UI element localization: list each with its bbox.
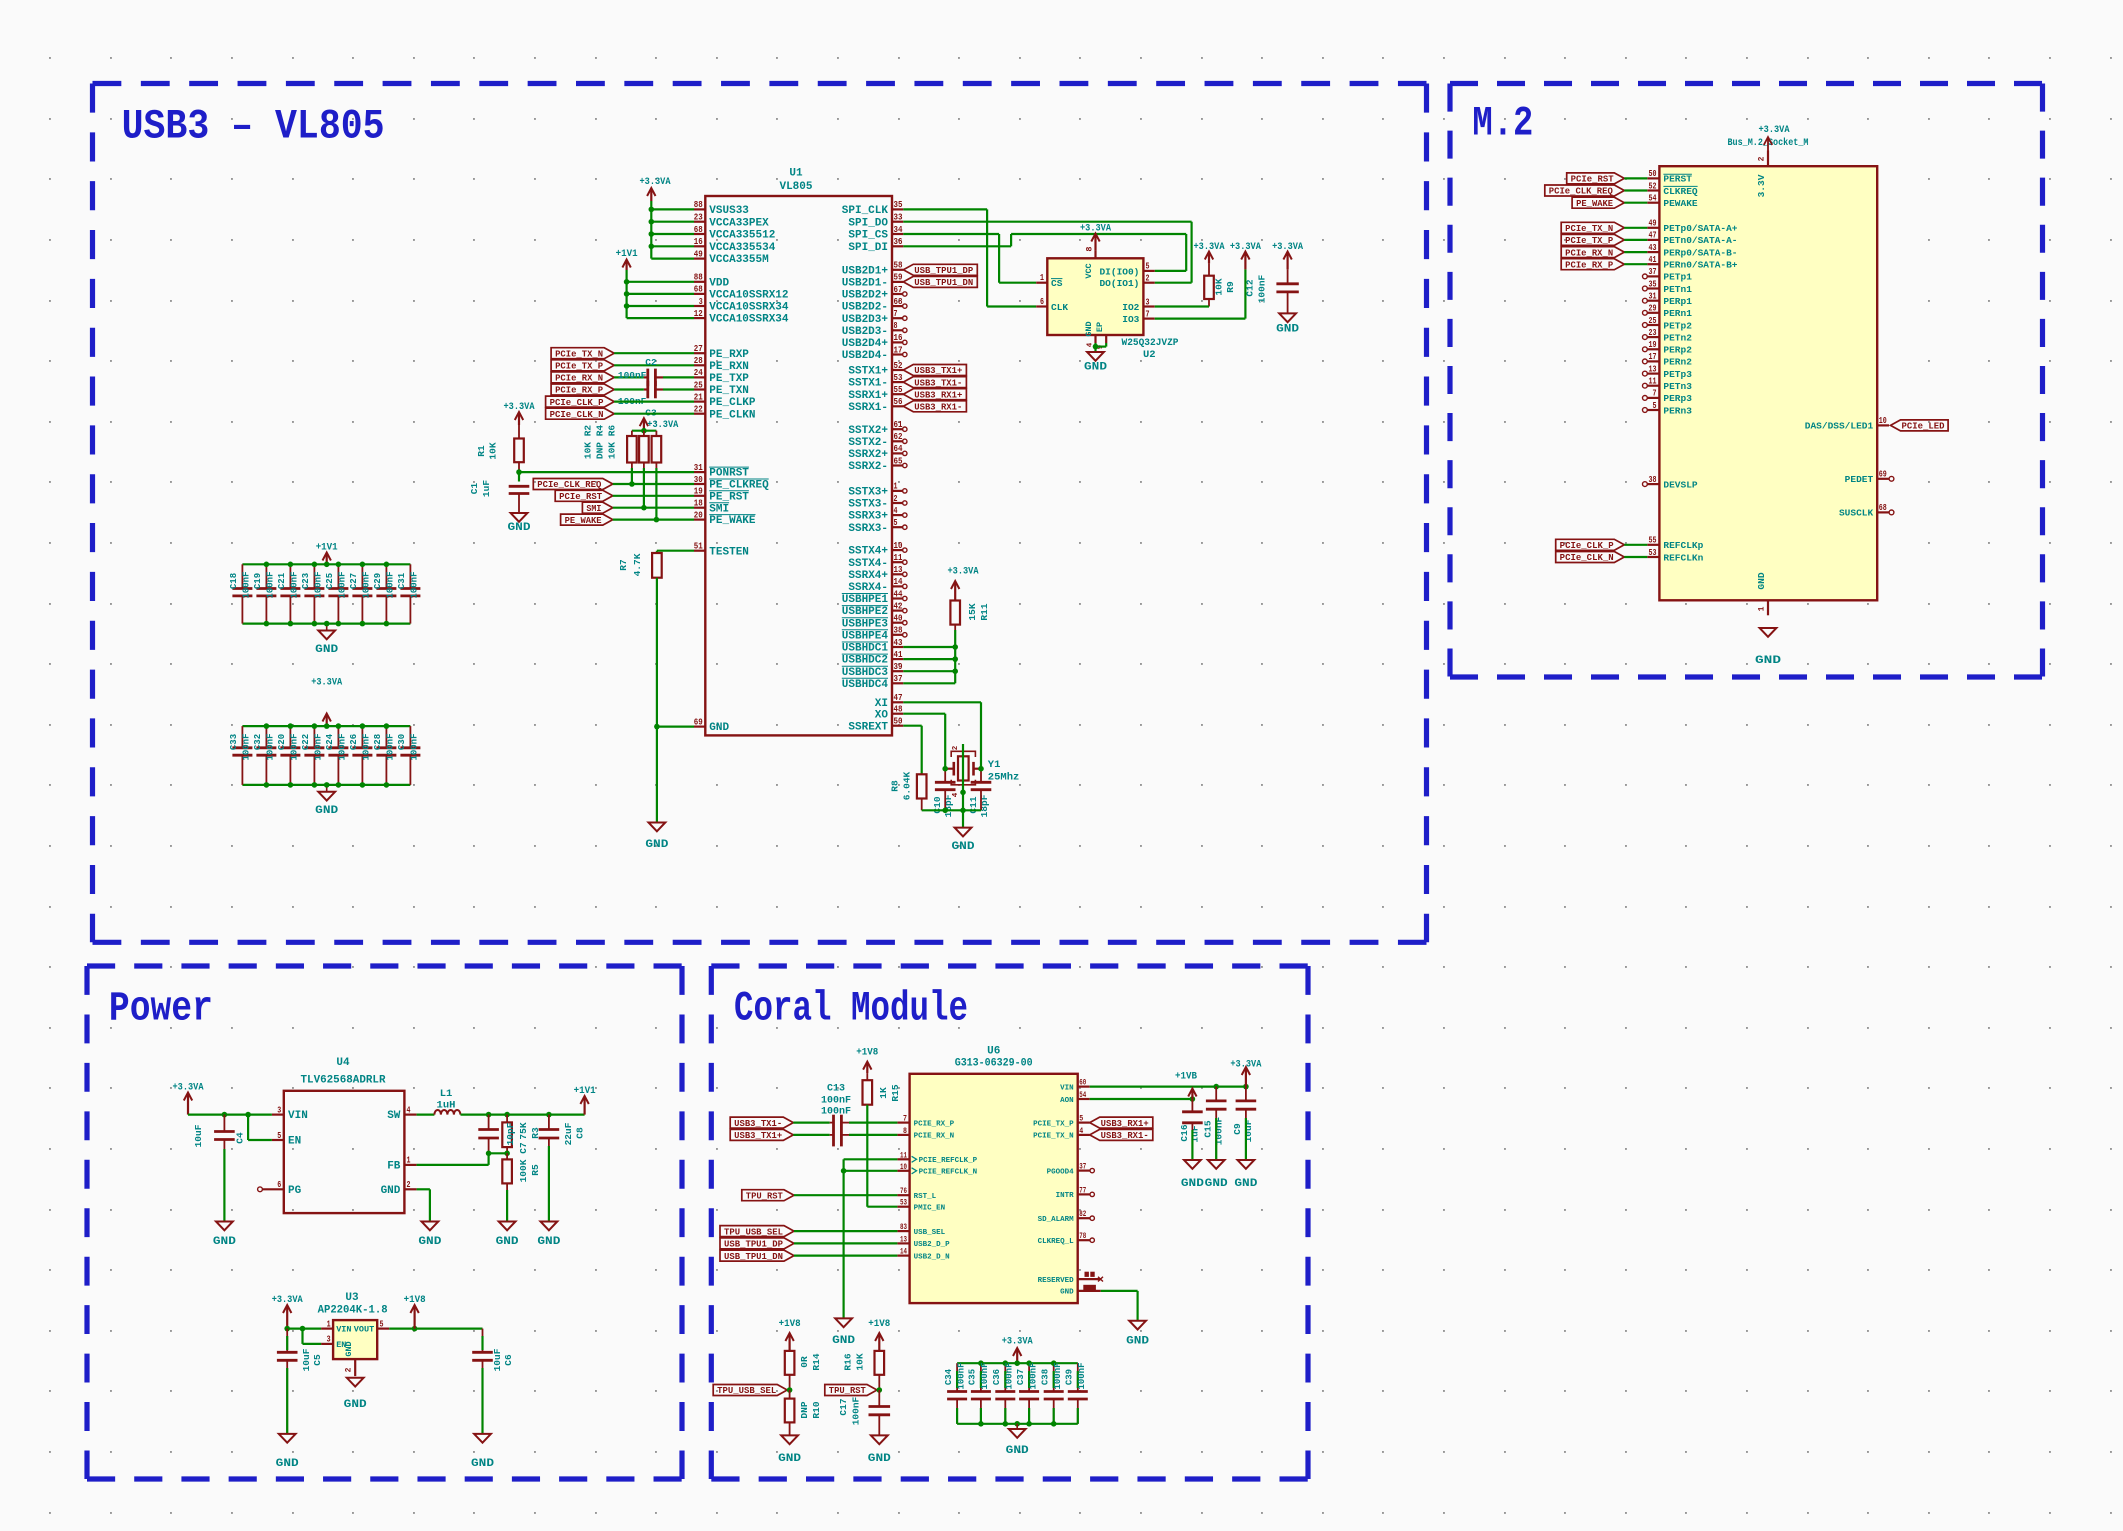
- svg-text:+3.3VA: +3.3VA: [1230, 1059, 1262, 1071]
- svg-text:C22: C22: [301, 734, 311, 750]
- ground C16: [1184, 1160, 1201, 1169]
- hier label PCIe_TX_P (M.2): [1561, 234, 1624, 245]
- svg-text:SSTX2-: SSTX2-: [848, 437, 888, 449]
- svg-text:PETp0/SATA-A+: PETp0/SATA-A+: [1663, 223, 1737, 234]
- svg-text:PCIe_RST: PCIe_RST: [1571, 175, 1615, 185]
- capacitor C19 100nF: [265, 564, 267, 588]
- wire R2 to PE_CLKREQ: [631, 463, 633, 485]
- svg-text:GND: GND: [645, 839, 668, 851]
- svg-text:PCIE_RX_N: PCIE_RX_N: [914, 1133, 955, 1141]
- svg-text:GND: GND: [381, 1185, 401, 1197]
- hier label TPU_USB_SEL bottom: [713, 1385, 787, 1396]
- capacitor C18 100nF: [241, 564, 243, 588]
- capacitor C6 10uF: [482, 1329, 484, 1353]
- svg-text:PGOOD4: PGOOD4: [1047, 1168, 1075, 1176]
- wire PCIe_CLK_N to M.2: [1624, 556, 1647, 558]
- wire SMI: [613, 507, 694, 509]
- power +3.3VA above U2: [1094, 235, 1096, 251]
- svg-text:Y1: Y1: [988, 759, 1001, 771]
- svg-text:37: 37: [1079, 1163, 1086, 1172]
- capacitor C24 100nF: [337, 726, 339, 748]
- svg-text:R15: R15: [890, 1084, 901, 1101]
- svg-text:C16: C16: [1179, 1124, 1190, 1141]
- svg-text:SSRX4+: SSRX4+: [848, 570, 888, 582]
- svg-text:100K: 100K: [518, 1159, 529, 1182]
- svg-text:USBHPE4: USBHPE4: [842, 630, 889, 642]
- wire PE_RST: [613, 495, 694, 497]
- svg-text:100nF: 100nF: [1005, 1362, 1015, 1389]
- ground below C6: [474, 1434, 491, 1443]
- svg-text:PETn3: PETn3: [1663, 381, 1692, 392]
- U4 pins: [272, 1113, 284, 1115]
- wire R4 to SMI: [643, 463, 645, 508]
- svg-text:USB2D2+: USB2D2+: [842, 290, 889, 302]
- svg-text:1: 1: [327, 1318, 331, 1329]
- svg-text:SSRX1-: SSRX1-: [848, 402, 888, 414]
- svg-text:10pF: 10pF: [505, 1122, 516, 1145]
- svg-text:PETp1: PETp1: [1663, 272, 1692, 283]
- ground C9: [1238, 1160, 1255, 1169]
- U1 USB2D pins: [892, 269, 903, 271]
- svg-text:100nF: 100nF: [290, 571, 300, 598]
- ground below R7: [649, 823, 666, 832]
- svg-text:PG: PG: [288, 1185, 302, 1197]
- svg-text:2: 2: [1146, 273, 1150, 284]
- svg-text:37: 37: [1649, 266, 1657, 277]
- hier label PCIe_TX_P: [551, 360, 614, 371]
- svg-text:1uH: 1uH: [437, 1100, 456, 1112]
- svg-text:8: 8: [1085, 246, 1095, 251]
- resistor R5 100K: [502, 1159, 512, 1183]
- svg-text:PETp2: PETp2: [1663, 320, 1692, 331]
- svg-text:10K: 10K: [488, 442, 499, 459]
- svg-text:U3: U3: [345, 1292, 359, 1304]
- capacitor C21 100nF: [289, 564, 291, 588]
- svg-text:100nF: 100nF: [410, 733, 420, 760]
- svg-text:100nF: 100nF: [410, 571, 420, 598]
- wire SPI_DO to U2 DO: [903, 221, 1191, 223]
- svg-text:100nF: 100nF: [618, 370, 647, 381]
- svg-text:4.7K: 4.7K: [632, 553, 643, 576]
- svg-text:PETn2: PETn2: [1663, 332, 1692, 343]
- svg-text:+3.3VA: +3.3VA: [504, 401, 536, 413]
- svg-text:2: 2: [407, 1179, 411, 1190]
- wire VOUT to +1V8: [389, 1327, 482, 1329]
- svg-text:USB3_RX1+: USB3_RX1+: [1101, 1119, 1149, 1129]
- svg-text:30: 30: [694, 474, 703, 485]
- svg-text:1K: 1K: [878, 1087, 889, 1099]
- svg-text:11: 11: [894, 552, 903, 563]
- svg-text:C28: C28: [373, 734, 383, 750]
- svg-text:PERST: PERST: [1663, 174, 1692, 185]
- svg-text:100nF: 100nF: [821, 1096, 851, 1107]
- svg-text:USBHDC3: USBHDC3: [842, 667, 889, 679]
- svg-text:GND: GND: [315, 644, 338, 656]
- svg-text:USB2D3-: USB2D3-: [842, 326, 888, 338]
- hier label PCIe_RX_P: [551, 384, 614, 395]
- svg-text:13: 13: [1649, 363, 1657, 374]
- svg-text:68: 68: [894, 296, 903, 307]
- svg-text:C29: C29: [373, 573, 383, 589]
- svg-text:50: 50: [894, 716, 903, 727]
- wire PCIe_CLK_N to pin22: [614, 413, 694, 415]
- ground U4: [422, 1222, 439, 1231]
- svg-text:100nF: 100nF: [362, 571, 372, 598]
- M.2 left pins: [1647, 177, 1659, 179]
- svg-text:VCCA335512: VCCA335512: [709, 230, 775, 242]
- svg-text:14: 14: [900, 1248, 907, 1257]
- wire SPI_DI to U2 DI: [903, 245, 1011, 247]
- svg-text:SSTX1-: SSTX1-: [848, 378, 888, 390]
- svg-text:SSTX1+: SSTX1+: [848, 366, 888, 378]
- svg-text:U1: U1: [789, 168, 803, 180]
- svg-text:SSRX2-: SSRX2-: [848, 461, 888, 473]
- svg-text:PE_CLKN: PE_CLKN: [709, 409, 755, 421]
- svg-text:5: 5: [1079, 1115, 1083, 1124]
- svg-text:CLK: CLK: [1051, 302, 1068, 313]
- hier label PE_WAKE (M.2): [1572, 197, 1624, 208]
- svg-text:16: 16: [894, 332, 903, 343]
- svg-text:100nF: 100nF: [386, 733, 396, 760]
- svg-text:5: 5: [1653, 400, 1657, 411]
- svg-text:USBHPE2: USBHPE2: [842, 606, 888, 618]
- wire REFCLK to GND: [842, 1171, 844, 1319]
- svg-text:76: 76: [900, 1187, 907, 1196]
- svg-text:68: 68: [694, 284, 703, 295]
- svg-text:10: 10: [894, 540, 903, 551]
- section box Coral Module: [711, 963, 1308, 968]
- power +3.3VA U1 top-left: [650, 189, 652, 201]
- svg-text:38: 38: [1649, 474, 1657, 485]
- svg-text:C30: C30: [397, 734, 407, 750]
- capacitor C35 100nF: [980, 1363, 982, 1391]
- U2 CS pin 1: [1036, 282, 1047, 284]
- hier label USB3_RX1-: [903, 401, 966, 412]
- svg-text:+3.3VA: +3.3VA: [1272, 241, 1304, 253]
- svg-text:4: 4: [407, 1104, 411, 1115]
- M.2 GND pin 1 bottom: [1767, 600, 1769, 615]
- svg-text:5: 5: [1146, 261, 1150, 272]
- svg-text:3: 3: [327, 1334, 331, 1345]
- capacitor C10 18pF: [944, 769, 946, 783]
- svg-text:36: 36: [894, 236, 903, 247]
- svg-text:DAS/DSS/LED1: DAS/DSS/LED1: [1805, 421, 1874, 432]
- svg-text:+3.3VA: +3.3VA: [647, 419, 679, 431]
- U2 VCC pin 8: [1094, 251, 1096, 259]
- svg-text:3: 3: [277, 1104, 281, 1115]
- capacitor C9 10uF: [1245, 1087, 1247, 1101]
- wire PCIe_RX_N to M.2: [1624, 251, 1647, 253]
- svg-text:33: 33: [894, 212, 903, 223]
- resistor R7 4.7K: [657, 550, 694, 552]
- svg-text:25: 25: [1649, 315, 1657, 326]
- svg-text:25Mhz: 25Mhz: [988, 772, 1020, 784]
- svg-text:SSRX4-: SSRX4-: [848, 582, 888, 594]
- svg-text:GND: GND: [952, 841, 975, 853]
- hier label USB3_RX1+ (coral): [1090, 1117, 1153, 1128]
- capacitor C30 100nF: [409, 726, 411, 748]
- wire FB node: [489, 1152, 508, 1154]
- wire PCIe_RX_N to C2: [614, 376, 644, 378]
- svg-text:53: 53: [1649, 547, 1657, 558]
- svg-text:USB2D4+: USB2D4+: [842, 338, 889, 350]
- svg-text:100nF: 100nF: [266, 733, 276, 760]
- svg-text:PE_WAKE: PE_WAKE: [565, 516, 602, 526]
- svg-text:PERn3: PERn3: [1663, 405, 1692, 416]
- U1 SSTX2 group dangling: [892, 428, 903, 430]
- capacitor C29 100nF: [385, 564, 387, 588]
- capacitor C15 100nF: [1215, 1087, 1217, 1101]
- svg-text:40: 40: [894, 613, 903, 624]
- capacitor C32 100nF: [265, 726, 267, 748]
- svg-text:SMI: SMI: [709, 503, 729, 515]
- svg-text:+3.3VA: +3.3VA: [1230, 241, 1262, 253]
- capacitor C31 100nF: [409, 564, 411, 588]
- svg-text:55: 55: [894, 384, 903, 395]
- svg-text:1uF: 1uF: [1190, 1125, 1201, 1142]
- svg-text:100nF: 100nF: [851, 1396, 862, 1425]
- hier label PCIe_CLK_N (M.2): [1556, 552, 1625, 563]
- svg-text:61: 61: [894, 419, 903, 430]
- wire C2 to pin24: [655, 376, 663, 378]
- svg-text:59: 59: [894, 272, 903, 283]
- svg-text:C35: C35: [968, 1369, 978, 1385]
- svg-text:USBHPE1: USBHPE1: [842, 594, 889, 606]
- svg-text:SPI_DO: SPI_DO: [848, 217, 888, 229]
- ground REFCLK: [835, 1318, 852, 1327]
- capacitor C7 10pF: [488, 1115, 490, 1130]
- svg-text:GND: GND: [471, 1458, 494, 1470]
- hier label SMI: [582, 502, 612, 513]
- svg-text:C7: C7: [518, 1142, 529, 1154]
- svg-text:GND: GND: [1006, 1445, 1029, 1457]
- svg-text:PCIE_REFCLK_N: PCIE_REFCLK_N: [919, 1169, 978, 1177]
- svg-text:10K: 10K: [855, 1353, 866, 1370]
- svg-text:31: 31: [1649, 291, 1657, 302]
- U1 USBHPE pins dangling: [892, 597, 903, 599]
- svg-text:GND: GND: [778, 1453, 801, 1465]
- svg-text:C25: C25: [325, 573, 335, 589]
- svg-text:SSRX3-: SSRX3-: [848, 523, 888, 535]
- svg-text:DNP R4: DNP R4: [595, 425, 606, 460]
- svg-text:78: 78: [1079, 1232, 1086, 1241]
- svg-text:GND: GND: [315, 805, 338, 817]
- wire PCIe_CLK_P to pin21: [614, 401, 694, 403]
- svg-text:41: 41: [894, 649, 903, 660]
- svg-text:77: 77: [1079, 1186, 1086, 1195]
- U1 GND pin: [694, 725, 705, 727]
- wire USB_TPU1_DN: [794, 1254, 897, 1256]
- U1 XI XO SSREXT pins: [892, 701, 903, 703]
- svg-text:VCCA10SSRX34: VCCA10SSRX34: [709, 314, 789, 326]
- hier label USB_TPU1_DN (coral): [720, 1250, 794, 1261]
- svg-text:PE_TXP: PE_TXP: [709, 373, 749, 385]
- svg-text:23: 23: [694, 212, 703, 223]
- svg-text:7: 7: [894, 308, 898, 319]
- svg-text:SSRX3+: SSRX3+: [848, 511, 888, 523]
- svg-text:10K: 10K: [1214, 278, 1225, 295]
- svg-text:5: 5: [277, 1130, 281, 1141]
- section box USB3 - VL805: [93, 81, 1427, 86]
- capacitor C3 100nF: [646, 381, 649, 399]
- svg-text:3.3V: 3.3V: [1756, 174, 1767, 197]
- resistor R16 10K: [878, 1334, 880, 1351]
- wire R9 to IO2: [1208, 299, 1210, 307]
- svg-text:C1: C1: [469, 483, 480, 495]
- resistors R2 R4 R6 pullups: [643, 419, 645, 431]
- svg-text:16: 16: [694, 236, 703, 247]
- ground C15: [1208, 1160, 1225, 1169]
- svg-text:51: 51: [694, 541, 703, 552]
- svg-text:+3.3VA: +3.3VA: [640, 176, 672, 188]
- svg-text:53: 53: [900, 1199, 907, 1208]
- svg-text:SSTX3+: SSTX3+: [848, 487, 888, 499]
- svg-text:62: 62: [894, 431, 903, 442]
- svg-text:VL805: VL805: [779, 181, 812, 193]
- svg-text:29: 29: [1649, 303, 1657, 314]
- svg-text:PCIe_RST: PCIe_RST: [559, 492, 603, 502]
- svg-text:PETn0/SATA-A-: PETn0/SATA-A-: [1663, 235, 1737, 246]
- hier label USB3_RX1+: [903, 389, 966, 400]
- svg-text:2: 2: [1758, 156, 1767, 161]
- svg-text:GND: GND: [496, 1236, 519, 1248]
- wire EN branch: [247, 1115, 249, 1140]
- svg-text:50: 50: [1649, 168, 1657, 179]
- svg-text:GND: GND: [1084, 362, 1107, 374]
- hier label TPU_RST (coral): [742, 1190, 794, 1201]
- wire U4 GND pin: [417, 1188, 430, 1190]
- svg-text:7: 7: [903, 1115, 907, 1124]
- capacitor C38 100nF: [1053, 1363, 1055, 1391]
- svg-text:43: 43: [1649, 242, 1657, 253]
- power +3.3VA U3: [286, 1306, 288, 1329]
- hier label PCIe_CLK_REQ (M.2): [1545, 185, 1625, 196]
- resistor R2: [631, 431, 633, 436]
- svg-text:R11: R11: [979, 603, 990, 620]
- svg-text:42: 42: [894, 600, 903, 611]
- svg-text:CS: CS: [1051, 278, 1063, 289]
- svg-text:68: 68: [694, 224, 703, 235]
- svg-text:PCIe_CLK_N: PCIe_CLK_N: [1560, 553, 1614, 563]
- svg-text:GND: GND: [832, 1335, 855, 1347]
- svg-text:USB3_RX1-: USB3_RX1-: [1101, 1131, 1149, 1141]
- wire SPI_CS to U2 CS: [903, 233, 999, 235]
- svg-text:INTR: INTR: [1056, 1192, 1075, 1200]
- svg-text:GND: GND: [1234, 1178, 1257, 1190]
- svg-text:C26: C26: [349, 734, 359, 750]
- wire PCIe_TX_N to M.2: [1624, 227, 1647, 229]
- wire PCIe_TX_N to pin27: [614, 352, 694, 354]
- svg-text:SSTX2+: SSTX2+: [848, 425, 888, 437]
- svg-text:100nF: 100nF: [362, 733, 372, 760]
- svg-text:USB3 – VL805: USB3 – VL805: [122, 103, 385, 151]
- M.2 right pins: [1877, 424, 1889, 426]
- svg-text:USB3_TX1+: USB3_TX1+: [914, 366, 962, 376]
- svg-text:C8: C8: [575, 1127, 586, 1139]
- svg-text:USB2D4-: USB2D4-: [842, 350, 888, 362]
- svg-text:100nF: 100nF: [242, 571, 252, 598]
- svg-text:100nF: 100nF: [338, 733, 348, 760]
- svg-text:18: 18: [694, 498, 703, 509]
- svg-text:13: 13: [894, 564, 903, 575]
- svg-text:8: 8: [894, 320, 898, 331]
- svg-text:USB3_TX1-: USB3_TX1-: [734, 1119, 782, 1129]
- hier label PCIe_CLK_N: [546, 408, 615, 419]
- wire USB3_TX1+ to C13: [793, 1134, 829, 1136]
- wire U6 GND pin: [1101, 1290, 1138, 1292]
- IC U3 AP2204K-1.8 body: [333, 1320, 377, 1359]
- resistor R9 10K: [1208, 253, 1210, 264]
- capacitor C28 100nF: [385, 726, 387, 748]
- svg-text:GND: GND: [1084, 321, 1094, 336]
- svg-text:C5: C5: [312, 1354, 323, 1366]
- svg-text:+3.3VA: +3.3VA: [1759, 124, 1791, 136]
- svg-text:10K R6: 10K R6: [607, 425, 618, 460]
- svg-text:USBHDC4: USBHDC4: [842, 679, 889, 691]
- svg-text:USB_TPU1_DN: USB_TPU1_DN: [724, 1252, 783, 1262]
- svg-text:GND: GND: [1755, 655, 1782, 667]
- wire IO3 to +3.3VA: [1155, 318, 1246, 320]
- power +1V1 U1: [625, 261, 627, 271]
- ground cap bank 2: [318, 792, 335, 801]
- resistor R10 DNP: [789, 1390, 791, 1399]
- svg-text:VCCA335534: VCCA335534: [709, 242, 775, 254]
- svg-text:C27: C27: [349, 573, 359, 589]
- svg-text:49: 49: [1649, 218, 1657, 229]
- svg-text:PCIe_TX_N: PCIe_TX_N: [1565, 224, 1613, 234]
- power +3.3VA U4: [187, 1094, 189, 1115]
- wire C3 to pin25: [655, 388, 663, 390]
- svg-text:SSTX4-: SSTX4-: [848, 558, 888, 570]
- svg-text:39: 39: [894, 661, 903, 672]
- hier label PCIe_TX_N: [551, 348, 614, 359]
- wire +3.3VA bus to U1: [650, 201, 652, 259]
- hier label PCIe_TX_N (M.2): [1561, 222, 1624, 233]
- section box M.2: [1450, 81, 2043, 86]
- svg-text:USB2D1+: USB2D1+: [842, 265, 889, 277]
- svg-text:PE_CLKP: PE_CLKP: [709, 397, 756, 409]
- hier label USB3_TX1+ (coral): [730, 1129, 793, 1140]
- wire U3 EN: [301, 1329, 303, 1344]
- svg-text:USB3_TX1+: USB3_TX1+: [734, 1131, 782, 1141]
- wire R7 to GND net: [656, 578, 658, 823]
- resistor R1 10K: [518, 413, 520, 425]
- svg-text:19: 19: [694, 486, 703, 497]
- capacitor C34 100nF: [956, 1363, 958, 1391]
- svg-text:35: 35: [894, 199, 903, 210]
- svg-text:GND: GND: [1181, 1178, 1204, 1190]
- svg-text:C19: C19: [253, 573, 263, 589]
- IC U4 TLV62568ADRLR body: [284, 1091, 405, 1213]
- svg-text:10uF: 10uF: [492, 1348, 503, 1371]
- svg-text:GND: GND: [1126, 1336, 1149, 1348]
- wire R6 to PE_WAKE: [655, 463, 657, 520]
- wire crystal case to GND: [962, 744, 964, 810]
- svg-text:Power: Power: [109, 985, 213, 1033]
- svg-text:21: 21: [694, 391, 703, 402]
- svg-text:1: 1: [407, 1155, 411, 1166]
- svg-text:PCIe_CLK_N: PCIe_CLK_N: [550, 410, 604, 420]
- svg-text:1: 1: [1040, 272, 1044, 283]
- svg-text:USB3_RX1-: USB3_RX1-: [914, 403, 962, 413]
- capacitor C5 10uF: [286, 1329, 288, 1353]
- svg-text:VIN: VIN: [1060, 1084, 1074, 1092]
- svg-text:TPU_USB_SEL: TPU_USB_SEL: [717, 1386, 776, 1396]
- svg-text:C33: C33: [229, 734, 239, 750]
- svg-text:2: 2: [952, 745, 960, 750]
- svg-text:FB: FB: [387, 1161, 401, 1173]
- wire R11 to USBHDC pins: [954, 625, 956, 630]
